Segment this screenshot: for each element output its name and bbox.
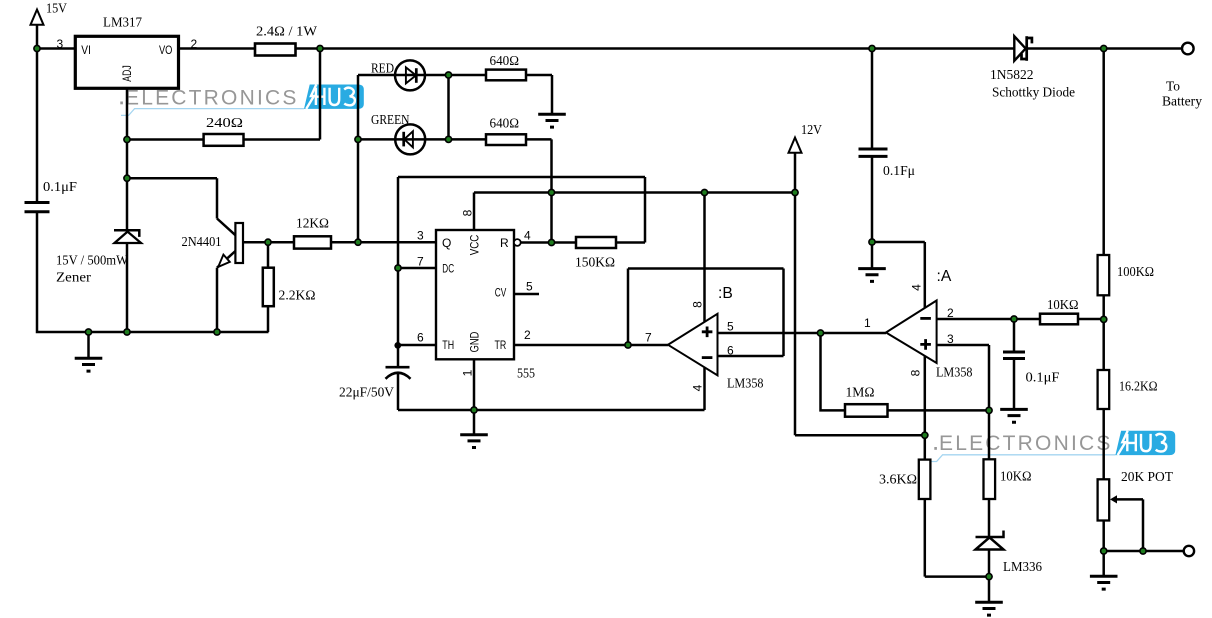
svg-text:8: 8 — [691, 301, 705, 308]
svg-text:3.6KΩ: 3.6KΩ — [879, 473, 917, 488]
svg-text:12V: 12V — [801, 123, 822, 138]
svg-text:GND: GND — [468, 331, 482, 352]
svg-text:22μF/50V: 22μF/50V — [339, 386, 394, 401]
svg-text:0.1Fμ: 0.1Fμ — [883, 164, 915, 179]
svg-text:7: 7 — [417, 254, 424, 268]
svg-text:5: 5 — [727, 320, 734, 334]
svg-text:6: 6 — [417, 330, 424, 344]
svg-text:100KΩ: 100KΩ — [1117, 265, 1154, 280]
svg-text:12KΩ: 12KΩ — [296, 217, 329, 232]
svg-text:16.2KΩ: 16.2KΩ — [1119, 380, 1158, 395]
svg-text:20K POT: 20K POT — [1121, 470, 1173, 485]
svg-text:5: 5 — [526, 279, 533, 293]
svg-text:TR: TR — [495, 338, 507, 352]
svg-text:10KΩ: 10KΩ — [1047, 298, 1079, 313]
svg-text:3: 3 — [57, 37, 64, 51]
svg-text:10KΩ: 10KΩ — [1000, 470, 1032, 485]
svg-text:240Ω: 240Ω — [206, 116, 243, 131]
svg-text:2.4Ω / 1W: 2.4Ω / 1W — [256, 25, 318, 40]
svg-text:VO: VO — [159, 43, 172, 57]
svg-text:Battery: Battery — [1162, 95, 1202, 110]
svg-text:DC: DC — [442, 261, 454, 275]
svg-text:VCC: VCC — [468, 234, 482, 255]
svg-text:6: 6 — [727, 343, 734, 357]
svg-text:4: 4 — [691, 384, 705, 391]
svg-text:2: 2 — [947, 306, 954, 320]
svg-text:GREEN: GREEN — [371, 113, 410, 128]
svg-text:0.1μF: 0.1μF — [1026, 371, 1060, 386]
svg-text:LM317: LM317 — [103, 16, 142, 31]
svg-text:1: 1 — [461, 369, 475, 376]
svg-text:1N5822: 1N5822 — [990, 68, 1034, 83]
svg-text:1: 1 — [864, 316, 871, 330]
svg-text:Zener: Zener — [56, 271, 91, 286]
svg-text:1MΩ: 1MΩ — [846, 386, 875, 401]
svg-text:Schottky Diode: Schottky Diode — [992, 86, 1075, 101]
svg-text::A: :A — [937, 268, 952, 285]
svg-text::B: :B — [718, 285, 733, 302]
svg-text:CV: CV — [495, 286, 507, 300]
svg-text:8: 8 — [909, 369, 923, 376]
svg-text:555: 555 — [517, 367, 535, 382]
svg-text:2N4401: 2N4401 — [182, 235, 222, 250]
svg-text:ADJ: ADJ — [120, 65, 134, 82]
svg-text:0.1μF: 0.1μF — [43, 180, 77, 195]
svg-text:TH: TH — [442, 338, 454, 352]
svg-text:RED: RED — [371, 62, 394, 77]
svg-text:15V / 500mW: 15V / 500mW — [56, 254, 129, 269]
svg-text:3: 3 — [947, 332, 954, 346]
svg-text:150KΩ: 150KΩ — [575, 256, 615, 271]
svg-text:To: To — [1166, 80, 1180, 95]
svg-text:R: R — [500, 236, 509, 250]
svg-text:LM336: LM336 — [1003, 560, 1042, 575]
svg-text:LM358: LM358 — [727, 377, 764, 392]
svg-text:4: 4 — [910, 284, 924, 291]
svg-text:640Ω: 640Ω — [490, 117, 520, 132]
svg-text:LM358: LM358 — [936, 366, 973, 381]
svg-text:2.2KΩ: 2.2KΩ — [279, 289, 316, 304]
svg-text:15V: 15V — [46, 2, 67, 17]
svg-text:2: 2 — [524, 328, 531, 342]
svg-text:3: 3 — [417, 229, 424, 243]
svg-text:640Ω: 640Ω — [490, 54, 520, 69]
svg-text:Q: Q — [442, 236, 451, 250]
svg-text:8: 8 — [461, 209, 475, 216]
svg-text:7: 7 — [645, 331, 652, 345]
svg-text:ELECTRONICS: ELECTRONICS — [939, 432, 1113, 455]
svg-text:VI: VI — [81, 43, 91, 57]
svg-text:2: 2 — [191, 37, 198, 51]
svg-text:4: 4 — [524, 229, 531, 243]
